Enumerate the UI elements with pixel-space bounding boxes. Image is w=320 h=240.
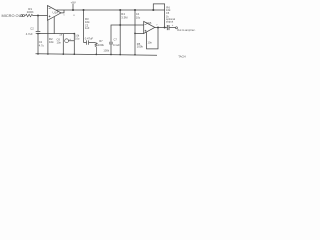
svg-text:100k: 100k (103, 48, 109, 52)
svg-text:1uF: 1uF (85, 26, 90, 30)
svg-text:10u: 10u (75, 37, 80, 41)
svg-text:+9V: +9V (71, 1, 76, 5)
svg-text:TACH: TACH (178, 54, 185, 58)
svg-text:10k: 10k (85, 20, 90, 24)
svg-text:10u: 10u (136, 15, 141, 19)
svg-text:C2: C2 (30, 27, 34, 31)
svg-text:MICRO OUT: MICRO OUT (2, 13, 25, 18)
svg-text:4.7uF: 4.7uF (26, 32, 33, 36)
svg-text:10n: 10n (148, 40, 153, 44)
svg-text:C5: C5 (166, 11, 170, 15)
svg-text:U1A: U1A (53, 11, 59, 15)
svg-text:100K: 100K (27, 10, 34, 14)
svg-text:C2: C2 (39, 40, 43, 44)
svg-text:100k: 100k (98, 43, 105, 47)
svg-text:0.1uF: 0.1uF (113, 43, 120, 47)
svg-text:10k: 10k (49, 40, 54, 44)
svg-text:Out to amp/rec.: Out to amp/rec. (177, 28, 196, 32)
svg-text:U1B: U1B (146, 21, 152, 25)
svg-text:0.47uF: 0.47uF (85, 37, 94, 41)
svg-text:100k: 100k (137, 45, 144, 49)
svg-text:3.3M: 3.3M (121, 15, 128, 19)
svg-text:C7: C7 (114, 37, 118, 41)
svg-text:4.7u: 4.7u (39, 44, 45, 48)
svg-text:10n: 10n (57, 40, 62, 44)
